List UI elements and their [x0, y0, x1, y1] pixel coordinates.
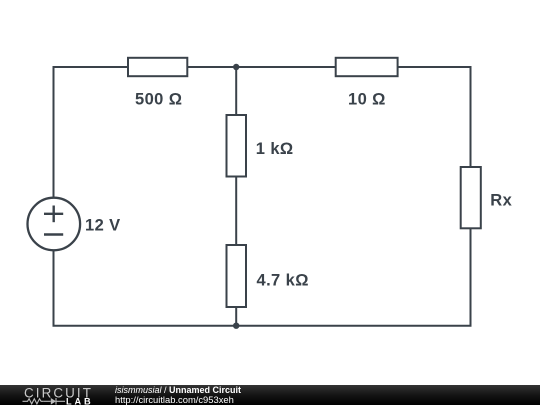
svg-text:Rx: Rx	[490, 192, 512, 210]
svg-text:500 Ω: 500 Ω	[135, 91, 182, 109]
svg-text:LAB: LAB	[66, 396, 94, 405]
svg-text:1 kΩ: 1 kΩ	[256, 140, 294, 158]
svg-text:12 V: 12 V	[85, 217, 121, 235]
svg-text:10 Ω: 10 Ω	[348, 91, 386, 109]
svg-text:4.7 kΩ: 4.7 kΩ	[257, 272, 309, 290]
